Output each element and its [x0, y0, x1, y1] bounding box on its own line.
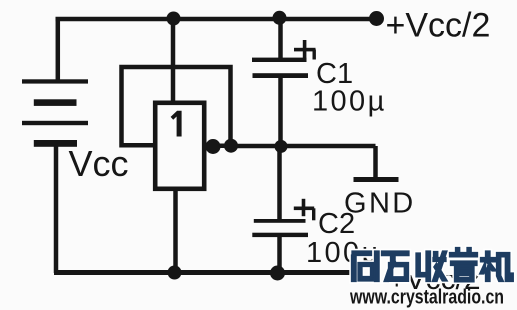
node junction dot top rail / C1 lead — [273, 11, 287, 25]
capacitor C1 — [252, 40, 316, 78]
node junction dot bottom rail / IC lead — [168, 266, 182, 280]
node junction dot top rail / IC lead — [167, 12, 181, 26]
node junction dot IC right pin — [206, 139, 221, 154]
wire mid rail — [231, 144, 376, 149]
capacitor C2 — [252, 199, 315, 237]
svg-text:+Vcc/2: +Vcc/2 — [386, 7, 491, 45]
node junction dot bottom rail / C2 lead — [270, 266, 285, 281]
svg-text:C2: C2 — [318, 208, 355, 240]
node junction dot feedback loop / mid rail — [224, 139, 238, 153]
label 1 (U1) — [171, 111, 182, 137]
node +Vcc/2 output terminal dot — [369, 11, 384, 26]
wire C1 bottom lead — [278, 77, 283, 146]
wire top rail — [56, 17, 377, 22]
wire battery bottom lead — [54, 143, 59, 273]
wire IC bottom lead — [173, 191, 178, 273]
wire feedback loop — [122, 67, 231, 146]
wire C1 top lead — [278, 19, 283, 58]
op-amp U1 follower box — [155, 103, 204, 189]
battery B1 (Vcc) — [22, 79, 88, 147]
node junction dot mid rail / C1-C2 — [275, 140, 288, 153]
wire IC right pin — [206, 143, 232, 148]
wire bottom rail — [54, 270, 352, 275]
svg-text:Vcc: Vcc — [69, 143, 129, 184]
wire C2 bottom lead — [277, 236, 282, 273]
wire battery top lead — [56, 17, 61, 81]
wire C2 top lead — [277, 146, 282, 219]
svg-text:100µ: 100µ — [312, 86, 387, 118]
wire GND drop — [373, 146, 378, 178]
ground GND — [354, 177, 399, 182]
svg-text:www.crystalradio.cn: www.crystalradio.cn — [349, 287, 504, 309]
wire IC top lead — [171, 19, 176, 103]
